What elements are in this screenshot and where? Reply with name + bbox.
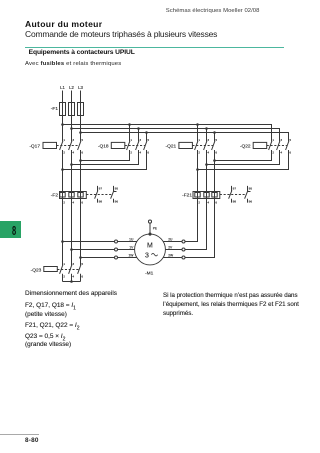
wire to 1V [72,249,135,251]
wire Q21 pole1 feed [197,125,199,142]
svg-text:PE: PE [153,226,157,230]
contact Q21 pole2 [204,141,207,150]
svg-text:2: 2 [198,201,200,205]
node Q18 pole2 tap [137,127,140,130]
contact Q17 pole2 [69,141,72,150]
svg-text:-M1: -M1 [145,270,154,276]
lead-in [25,61,121,67]
coil Q23 [44,267,58,272]
wire Q17 pole2 output column [71,150,73,265]
heater F2 pole1 [60,193,65,198]
node Q21 pole1 tap [196,123,199,126]
svg-text:-F1: -F1 [51,106,59,112]
svg-text:1: 1 [130,138,132,142]
wire Q21 pole2 output column [206,150,208,250]
wire Q21 pole3 feed [214,133,216,142]
svg-text:6: 6 [81,275,83,279]
svg-text:95: 95 [115,186,119,190]
node Q18 pole1 tap [128,123,131,126]
svg-text:2: 2 [63,275,65,279]
svg-text:96: 96 [115,199,119,203]
contact F2 aux NO 97-98 [97,186,99,191]
svg-text:-Q21: -Q21 [166,143,177,149]
contact F21 aux NC 95-96 [247,186,249,191]
svg-text:6: 6 [289,151,291,155]
contact Q23 pole3 [78,265,81,274]
svg-text:5: 5 [147,138,149,142]
terminal 2U [182,240,185,243]
svg-text:-Q18: -Q18 [98,143,109,149]
terminal 2V [182,248,185,251]
svg-text:6: 6 [215,151,217,155]
wire to 2V [165,199,206,250]
svg-text:98: 98 [99,199,103,203]
contact F21 aux NO 97-98 [231,186,233,191]
node PE on frame [148,233,151,236]
overload relay F2 body [60,192,87,199]
footer rule [0,433,39,436]
node Q21 pole3 tap [213,131,216,134]
wire Q22 pole2 to Q21 column2 [207,150,280,165]
wire Q23 pole3 to star bar [80,274,82,282]
node join Q18-1/L3 [79,159,82,162]
svg-text:M: M [147,242,153,249]
wire Q18 actuator link [125,145,145,147]
wire Q18 pole2 to column L2 [72,150,139,165]
terminal 1U [115,240,118,243]
section heading [29,49,135,56]
wire Q18 pole3 to column L1 [63,150,147,170]
wire F21 trip link [220,194,246,196]
svg-text:L3: L3 [78,85,83,90]
note text [163,291,299,318]
node Q21 pole2 tap [205,127,208,130]
wire L2 column to Q17 [71,91,73,142]
svg-text:-Q17: -Q17 [29,143,40,149]
wire to 1U [63,241,137,243]
svg-text:98: 98 [233,199,237,203]
wire PE stub [149,223,151,234]
page number [25,437,39,444]
contact Q23 pole1 [60,265,63,274]
svg-text:97: 97 [99,186,103,190]
svg-text:96: 96 [249,199,253,203]
svg-text:-Q23: -Q23 [31,267,42,273]
wire Q23 pole1 to star bar [62,274,64,282]
node join Q18-2/L2 [70,163,73,166]
contact Q17 pole3 [78,141,81,150]
wire F2 trip link [86,194,111,196]
contact Q18 pole3 [144,141,147,150]
svg-text:4: 4 [207,151,209,155]
contact Q17 pole1 [60,141,63,150]
node 1U tap [61,240,64,243]
svg-text:5: 5 [215,138,217,142]
coil Q21 [179,142,193,148]
title [25,19,102,29]
svg-text:1: 1 [198,138,200,142]
svg-text:2U: 2U [168,238,173,242]
coil Q18 [111,142,125,148]
contact Q22 pole3 [286,141,289,150]
wire Q22 actuator link [267,145,287,147]
svg-text:6: 6 [81,201,83,205]
node join Q22-1/R3 [213,159,216,162]
dimensioning text [25,290,117,297]
svg-text:2: 2 [130,151,132,155]
motor M1 [135,234,166,265]
svg-text:97: 97 [233,186,237,190]
node Q18 pole3 tap [145,131,148,134]
wire Q21 pole2 feed [206,129,208,142]
subtitle [25,29,217,39]
wire Q22 pole3 to Q21 column1 [198,150,289,170]
wire Q18 pole3 feed [146,133,148,142]
terminal PE [148,220,151,223]
wire Q18 pole1 feed [129,125,131,142]
node join Q22-3/R1 [196,168,199,171]
node bus2 tap L2 [70,127,73,130]
svg-text:1U: 1U [129,238,134,242]
chapter tab 8 [0,221,21,239]
wire to 1W [81,257,137,259]
wire Q21 pole1 output column [197,150,199,242]
wire to 2W [163,199,214,258]
wire Q17 actuator link [57,145,79,147]
svg-text:L1: L1 [60,85,65,90]
svg-text:5: 5 [81,262,83,266]
wire Q18 pole2 feed [138,129,140,142]
svg-text:-Q22: -Q22 [240,143,251,149]
contact Q22 pole2 [277,141,280,150]
svg-text:3: 3 [145,252,149,259]
svg-text:2: 2 [198,151,200,155]
svg-text:6: 6 [215,201,217,205]
fuse F1 [60,103,66,116]
wire star point bar [63,281,81,283]
contact Q23 pole2 [69,265,72,274]
terminal 1W [115,256,118,259]
teal rule [25,47,284,48]
wire Q23 pole2 to star bar [71,274,73,282]
heater F21 pole1 [195,193,200,198]
svg-text:4: 4 [72,151,74,155]
wire bus L2 to Q22 pole2 [72,129,280,142]
wire Q22 pole1 to Q21 column3 [215,150,272,161]
coil Q22 [253,142,267,148]
svg-text:2: 2 [63,151,65,155]
svg-text:4: 4 [72,201,74,205]
svg-text:4: 4 [139,151,141,155]
heater F21 pole2 [204,193,209,198]
wire L3 column to Q17 [80,91,82,142]
contact Q22 pole1 [269,141,272,150]
node bus3 tap L3 [79,131,82,134]
svg-text:5: 5 [81,138,83,142]
svg-text:4: 4 [72,275,74,279]
svg-text:3: 3 [139,138,141,142]
svg-text:6: 6 [81,151,83,155]
contact Q21 pole1 [195,141,198,150]
svg-text:1W: 1W [128,254,134,258]
wire L1 column to Q17 [62,91,64,142]
svg-text:4: 4 [207,201,209,205]
wire Q17 pole3 output column [80,150,82,265]
svg-text:3: 3 [207,138,209,142]
svg-text:1: 1 [272,138,274,142]
node join Q22-2/R2 [205,163,208,166]
wire bus L3 to Q22 pole3 [81,133,289,142]
node 1V tap [70,248,73,251]
wire to 2U [163,199,197,242]
svg-text:5: 5 [289,138,291,142]
svg-text:4: 4 [280,151,282,155]
node join Q18-3/L1 [61,168,64,171]
heater F2 pole2 [69,193,74,198]
running head [166,8,260,14]
svg-text:3: 3 [280,138,282,142]
svg-text:-F2: -F2 [51,193,59,199]
contact Q18 pole1 [127,141,130,150]
contact F2 aux NC 95-96 [113,186,115,191]
svg-text:2: 2 [63,201,65,205]
contact Q18 pole2 [136,141,139,150]
wire Q23 actuator link [57,269,79,271]
node star point [70,280,73,283]
wire bus L1 to Q22 pole1 [63,125,272,142]
svg-text:-F21: -F21 [182,193,192,199]
wire Q21 pole3 output column [214,150,216,258]
terminal 2W [182,256,185,259]
wire Q21 actuator link [192,145,213,147]
coil Q17 [43,142,57,148]
svg-text:95: 95 [249,186,253,190]
wire Q18 pole1 to column L3 [81,150,130,161]
svg-text:2: 2 [272,151,274,155]
node 1W tap [79,256,82,259]
svg-text:L2: L2 [69,85,74,90]
wire Q17 pole1 output column [62,150,64,265]
terminal 1V [115,248,118,251]
svg-text:3: 3 [72,262,74,266]
svg-text:6: 6 [147,151,149,155]
overload relay F21 body [193,192,220,199]
contact Q21 pole3 [212,141,215,150]
svg-text:1: 1 [63,138,65,142]
svg-text:1: 1 [63,262,65,266]
node bus1 tap L1 [61,123,64,126]
heater F2 pole3 [78,193,83,198]
svg-text:3: 3 [72,138,74,142]
heater F21 pole3 [212,193,217,198]
